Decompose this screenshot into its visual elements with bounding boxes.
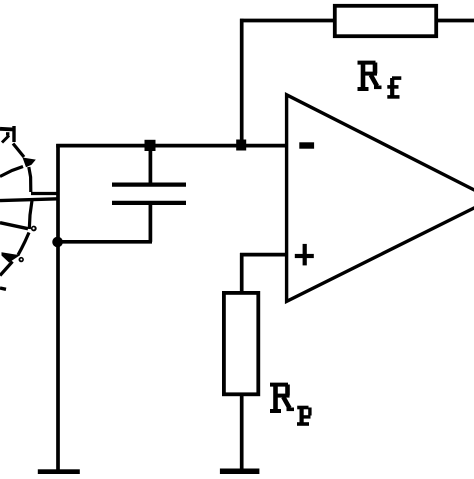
wire: left vertical bus from top node to ground xyxy=(56,144,60,470)
label Rf xyxy=(358,62,402,97)
node: capacitor top junction (square) xyxy=(145,140,156,151)
op-amp U1 triangle xyxy=(287,95,474,302)
sensor edge tick xyxy=(0,288,6,289)
wire: top horizontal (inverting input net) xyxy=(56,144,286,148)
capacitor C1 top lead xyxy=(149,150,153,183)
node: feedback junction (square) xyxy=(236,140,246,151)
wire: non-inverting input horizontal xyxy=(240,253,286,257)
ground (right) xyxy=(220,469,260,475)
wire: Rf right to edge xyxy=(438,19,474,23)
sensor body outline lower xyxy=(29,201,32,230)
subscript p xyxy=(297,406,308,410)
sensor ray arrow 1 shaft xyxy=(13,144,24,158)
node: bus junction (round dot) xyxy=(52,237,63,248)
sensor upper terminal xyxy=(31,192,58,195)
sensor body arc lower-left xyxy=(18,233,29,256)
sensor inner sloped line xyxy=(0,223,28,229)
ground (left) xyxy=(38,469,80,474)
sensor body outline upper xyxy=(0,167,23,177)
sensor ray arrow 1 head xyxy=(23,158,36,168)
wire: Rp bottom to ground xyxy=(240,394,244,470)
wire: vertical down to Rp xyxy=(240,253,244,292)
subscript f xyxy=(390,78,394,96)
capacitor C1 top plate xyxy=(112,183,186,187)
sensor small ring xyxy=(31,226,37,232)
op-amp minus sign xyxy=(299,142,314,148)
sensor ray arrow 2 shaft xyxy=(0,262,13,276)
sensor D1 (photodetector, clipped at left edge) xyxy=(0,126,58,289)
sensor top tick mark xyxy=(0,127,14,131)
sensor lower terminal xyxy=(0,199,58,201)
wire: horizontal to Rf left xyxy=(240,19,333,23)
wire: vertical up to feedback resistor xyxy=(240,19,244,145)
resistor Rf body xyxy=(335,6,436,36)
op-amp plus sign xyxy=(295,244,314,266)
sensor ray arrow 2 head xyxy=(2,252,21,262)
capacitor C1 bottom lead xyxy=(149,205,153,242)
resistor Rp body xyxy=(224,293,258,394)
label Rp xyxy=(270,384,311,424)
capacitor C1 bottom plate xyxy=(112,201,186,205)
sensor small ring 2 xyxy=(19,257,24,262)
wire: capacitor bottom to bus xyxy=(56,240,152,244)
